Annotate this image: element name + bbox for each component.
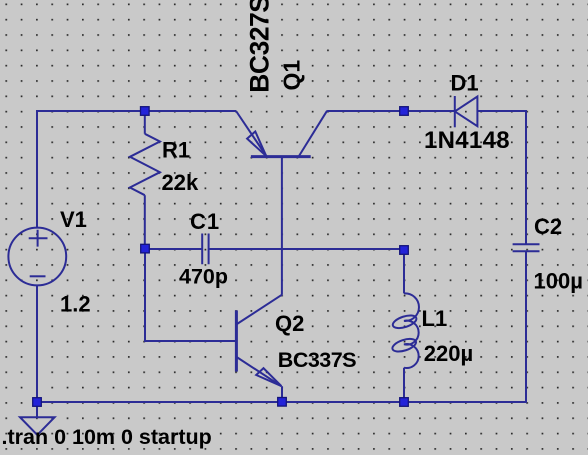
wire L1 top lead [403, 250, 405, 293]
svg-text:Q2: Q2 [275, 311, 304, 336]
diode D1 triangle [455, 97, 478, 127]
svg-text:1.2: 1.2 [60, 292, 91, 317]
transistor Q1 collector diagonal [299, 111, 328, 157]
svg-text:100µ: 100µ [534, 269, 583, 294]
inductor L1 coil arcs [404, 293, 419, 368]
capacitor C2 plates [513, 244, 540, 251]
wire node to D1 cathode [404, 110, 455, 112]
wire top-left horizontal (V1 to Q1 emitter) [37, 110, 236, 112]
svg-text:C2: C2 [534, 214, 562, 239]
wire R1 top lead [144, 111, 146, 134]
node junction L1 bottom [400, 398, 409, 407]
capacitor C1 plates [202, 234, 208, 265]
wire left vertical (top to V1) [36, 110, 38, 228]
transistor Q2 base bar [235, 310, 238, 371]
wire C1 right to L1 node [209, 248, 404, 250]
wire Q1 collector to node [327, 110, 404, 112]
svg-text:L1: L1 [422, 306, 448, 331]
inductor L1 loop 2 [391, 336, 418, 354]
V1 minus sign [30, 275, 46, 277]
svg-text:R1: R1 [162, 137, 190, 162]
node junction ground [33, 398, 42, 407]
transistor Q1 emitter diagonal [236, 112, 266, 157]
transistor Q2 emitter diagonal [236, 357, 281, 386]
node junction C1 left [141, 244, 150, 253]
wire D1 anode to right vertical down to C2 [477, 111, 526, 244]
svg-text:BC337S: BC337S [278, 348, 356, 372]
resistor R1 zigzag [130, 134, 160, 195]
wire V1 bottom to ground rail [36, 285, 38, 402]
wire bottom ground rail [36, 401, 526, 403]
wire Q1 base vertical to Q2 collector [281, 157, 283, 295]
svg-text:1N4148: 1N4148 [424, 127, 510, 154]
node junction Q2 emitter [278, 398, 287, 407]
svg-text:220µ: 220µ [424, 341, 473, 366]
node junction top D1/L1 [400, 107, 409, 116]
V1 plus sign [29, 230, 48, 247]
svg-text:D1: D1 [451, 70, 479, 95]
wire L1 bottom lead [403, 368, 405, 402]
ground symbol [20, 417, 55, 435]
transistor Q2 collector diagonal [236, 295, 282, 325]
svg-text:22k: 22k [162, 170, 199, 195]
wire Q2 emitter stub [281, 386, 283, 402]
inductor L1 loop 1 [391, 313, 418, 331]
wire R1 bottom lead [144, 195, 146, 249]
voltage source V1 circle [8, 228, 66, 286]
node junction top R1 [141, 107, 150, 116]
svg-text:BC327S: BC327S [245, 0, 275, 93]
svg-text:.tran 0 10m 0 startup: .tran 0 10m 0 startup [2, 425, 212, 449]
diode D1 cathode bar [454, 96, 456, 127]
transistor Q2 emitter arrow [256, 368, 281, 386]
svg-text:C1: C1 [190, 209, 220, 234]
transistor Q1 emitter arrow [247, 132, 266, 157]
node junction C1 right / L1 top [400, 246, 409, 255]
transistor Q1 base bar [251, 155, 311, 158]
svg-text:V1: V1 [60, 207, 87, 232]
svg-text:Q1: Q1 [279, 60, 305, 91]
wire Q2 base branch [145, 249, 236, 341]
svg-text:470p: 470p [179, 264, 228, 288]
wire ground stub [36, 402, 38, 417]
wire C1 left [145, 248, 202, 250]
wire C2 bottom to ground rail [525, 251, 527, 403]
